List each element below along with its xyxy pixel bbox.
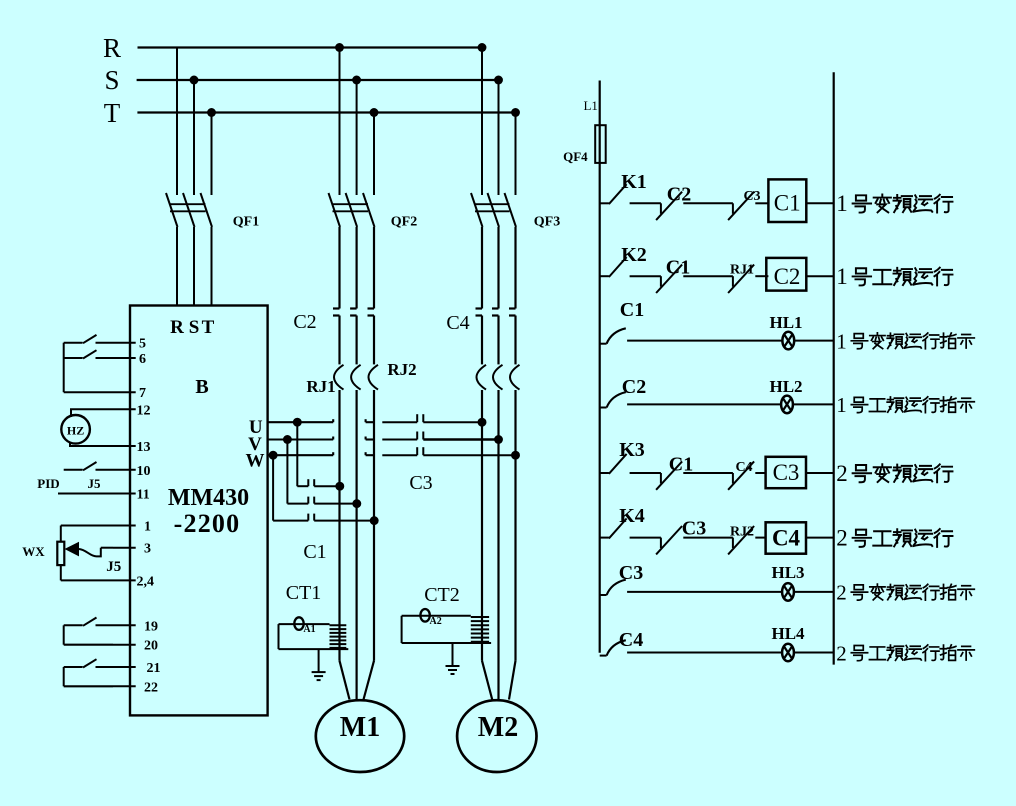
svg-text:C2: C2 [667, 184, 691, 206]
svg-text:HL2: HL2 [769, 377, 802, 396]
svg-text:A1: A1 [303, 624, 315, 635]
svg-text:1: 1 [836, 393, 847, 417]
svg-text:1: 1 [836, 191, 848, 216]
svg-text:1: 1 [144, 520, 151, 535]
svg-text:6: 6 [139, 352, 146, 367]
svg-text:C4: C4 [772, 526, 801, 551]
svg-text:13: 13 [137, 440, 151, 455]
svg-text:-2200: -2200 [174, 509, 241, 538]
svg-text:10: 10 [137, 464, 151, 479]
svg-text:K2: K2 [621, 244, 647, 266]
svg-text:C2: C2 [622, 376, 646, 398]
svg-text:T: T [104, 98, 121, 128]
svg-text:HL1: HL1 [769, 313, 802, 332]
svg-text:C4: C4 [619, 629, 643, 651]
svg-text:2: 2 [836, 525, 848, 550]
svg-text:T: T [202, 317, 215, 338]
svg-text:C2: C2 [774, 264, 801, 289]
svg-text:2: 2 [836, 461, 848, 486]
svg-text:QF1: QF1 [233, 215, 259, 230]
svg-text:C3: C3 [409, 472, 432, 494]
svg-text:C1: C1 [620, 299, 644, 321]
svg-text:R: R [103, 33, 121, 63]
svg-text:K1: K1 [621, 171, 647, 193]
svg-text:C2: C2 [293, 311, 316, 333]
svg-text:WX: WX [22, 544, 45, 559]
svg-text:1: 1 [836, 329, 847, 353]
svg-text:RJ2: RJ2 [387, 360, 416, 379]
svg-text:L1: L1 [583, 98, 597, 113]
svg-text:2: 2 [836, 641, 847, 665]
svg-text:1: 1 [836, 264, 848, 289]
svg-text:W: W [246, 451, 265, 472]
svg-text:B: B [195, 376, 208, 398]
svg-text:22: 22 [144, 680, 158, 695]
svg-text:HL3: HL3 [771, 563, 804, 582]
svg-text:HL4: HL4 [771, 624, 805, 643]
svg-text:S: S [104, 65, 119, 95]
svg-text:C1: C1 [669, 454, 693, 476]
svg-text:C1: C1 [303, 541, 326, 563]
svg-text:C3: C3 [619, 562, 643, 584]
svg-text:QF4: QF4 [563, 149, 588, 164]
svg-text:QF3: QF3 [534, 215, 560, 230]
svg-text:12: 12 [137, 403, 151, 418]
svg-text:RJ1: RJ1 [730, 263, 754, 278]
svg-text:MM430: MM430 [168, 485, 249, 511]
svg-text:2: 2 [836, 581, 847, 605]
svg-text:RJ1: RJ1 [306, 377, 335, 396]
svg-text:J5: J5 [88, 476, 102, 491]
svg-text:S: S [189, 317, 200, 338]
svg-text:C3: C3 [682, 518, 706, 540]
svg-text:M2: M2 [478, 712, 518, 743]
svg-text:R: R [170, 317, 184, 338]
svg-text:C1: C1 [666, 257, 690, 279]
svg-text:19: 19 [144, 619, 158, 634]
svg-text:C4: C4 [735, 460, 752, 475]
svg-text:5: 5 [139, 337, 146, 352]
svg-text:CT1: CT1 [286, 582, 322, 604]
svg-text:C3: C3 [773, 460, 800, 485]
svg-text:PID: PID [37, 476, 59, 491]
svg-text:11: 11 [137, 488, 150, 503]
svg-text:21: 21 [147, 661, 161, 676]
svg-text:J5: J5 [106, 559, 121, 575]
svg-text:3: 3 [144, 542, 151, 557]
svg-text:K3: K3 [619, 439, 645, 461]
svg-text:2,4: 2,4 [137, 574, 155, 589]
svg-text:A2: A2 [429, 616, 441, 627]
svg-text:20: 20 [144, 639, 158, 654]
svg-text:CT2: CT2 [424, 584, 460, 606]
svg-text:C3: C3 [743, 189, 760, 204]
svg-text:RJ2: RJ2 [730, 525, 754, 540]
svg-text:M1: M1 [340, 712, 380, 743]
svg-text:K4: K4 [619, 505, 645, 527]
svg-text:7: 7 [139, 386, 146, 401]
svg-text:C4: C4 [446, 312, 469, 334]
svg-text:C1: C1 [774, 191, 801, 216]
svg-text:HZ: HZ [67, 424, 84, 438]
svg-text:QF2: QF2 [391, 215, 417, 230]
